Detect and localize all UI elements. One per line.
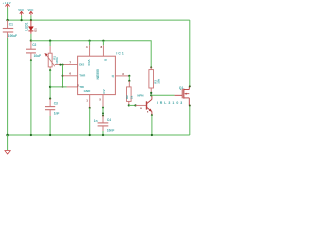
wire right rail lower <box>189 106 191 136</box>
wire LED to node A <box>30 34 32 41</box>
ground <box>5 151 10 154</box>
svg-text:GND: GND <box>84 89 92 93</box>
node dot R2 bottom <box>128 104 130 106</box>
node dot pin8 top <box>102 40 104 42</box>
svg-text:C3: C3 <box>54 101 58 105</box>
wire pot bottom <box>49 69 51 71</box>
capacitor C3 <box>45 99 59 116</box>
svg-text:6: 6 <box>69 72 71 76</box>
svg-text:Q: Q <box>112 74 115 78</box>
node dot gnd rail left <box>6 134 9 137</box>
svg-text:100k: 100k <box>55 57 59 64</box>
wire gnd stub <box>7 135 9 150</box>
wire wiper link down <box>62 65 64 87</box>
transistor Q1 MOSFET IRL3103 <box>157 86 190 105</box>
capacitor C2 <box>26 41 41 60</box>
svg-text:1k: 1k <box>130 95 134 99</box>
resistor R2 <box>125 81 133 105</box>
node dot gnd rail emitter <box>151 134 153 136</box>
wire bottom rail <box>8 134 190 136</box>
potentiometer R1 <box>45 46 59 69</box>
node dot source <box>189 105 191 107</box>
node dot wiper a <box>59 64 61 66</box>
node dot emitter <box>151 114 153 116</box>
svg-text:10nF: 10nF <box>107 128 114 132</box>
capacitor C4 <box>94 116 115 133</box>
wire THR pin <box>63 75 78 77</box>
wire emitter to gnd rail <box>151 115 153 135</box>
svg-text:IC1: IC1 <box>116 51 124 55</box>
svg-text:100uF: 100uF <box>8 34 17 38</box>
power flag P3 VCC <box>28 8 34 15</box>
node dot R3 bottom b <box>150 94 152 96</box>
svg-text:VCC: VCC <box>18 8 24 12</box>
wire net A horizontal <box>31 41 151 68</box>
node dot R3 bottom a <box>150 92 152 94</box>
node dot drain <box>189 85 191 87</box>
wire C4 to gnd rail <box>102 131 104 135</box>
wire P2 stem <box>21 15 23 20</box>
svg-text:1n: 1n <box>94 119 98 123</box>
node dot pin4 top <box>89 40 91 42</box>
node dot wiper b <box>62 64 64 66</box>
node dot TRI junction <box>62 86 64 88</box>
node junction TRI-C3 <box>49 86 51 88</box>
svg-text:NE555: NE555 <box>96 69 100 79</box>
node dot R3 top <box>150 66 152 68</box>
svg-text:C2: C2 <box>32 43 36 47</box>
node dot gnd rail C4 <box>102 134 104 136</box>
wire C3 to gnd rail <box>49 116 51 135</box>
pin 5 CV wire <box>102 95 104 108</box>
svg-text:10k: 10k <box>157 78 161 83</box>
power flag P1 +12V <box>3 2 12 8</box>
svg-text:R2: R2 <box>125 95 129 99</box>
LED D1 <box>24 20 37 34</box>
wire C1 to gnd rail <box>7 38 9 135</box>
svg-text:4: 4 <box>86 45 88 49</box>
svg-text:C4: C4 <box>107 118 111 122</box>
node dot base <box>134 104 136 106</box>
svg-text:E: E <box>147 111 149 113</box>
pin 1 GND wire <box>89 95 91 108</box>
svg-text:B: B <box>140 108 142 110</box>
node dot gnd rail pin1 <box>89 134 91 136</box>
wire base link <box>129 104 136 106</box>
svg-text:VCC: VCC <box>28 8 34 12</box>
op-amp/IC box: timer IC1 NE555 <box>78 51 125 94</box>
node junction rail-P2 <box>21 19 23 21</box>
svg-text:1: 1 <box>86 98 88 102</box>
wire top rail <box>8 19 190 21</box>
node junction A (LED/C2) <box>30 40 32 42</box>
svg-text:IRL3103: IRL3103 <box>157 101 184 105</box>
transistor Q2 NPN <box>137 93 152 114</box>
resistor R3 <box>149 67 161 92</box>
svg-text:8: 8 <box>101 45 103 49</box>
wire C2 to gnd rail <box>30 60 32 135</box>
svg-text:3: 3 <box>122 72 124 76</box>
wire gate <box>151 94 174 96</box>
svg-text:10uF: 10uF <box>34 54 41 58</box>
svg-text:C1: C1 <box>9 23 13 27</box>
node dot THR junction <box>62 75 64 77</box>
wire right rail upper <box>189 20 191 86</box>
node dot C2 bottom <box>30 59 32 61</box>
svg-text:LED1: LED1 <box>24 22 28 30</box>
svg-text:1nF: 1nF <box>54 112 60 116</box>
node dot C3 top <box>49 98 51 100</box>
wire P3 stem <box>30 15 32 20</box>
node dot gnd rail C3 <box>49 134 51 136</box>
capacitor C1 <box>3 20 17 38</box>
svg-text:7: 7 <box>69 60 71 64</box>
wire pin 8 <box>102 41 104 46</box>
svg-text:+12V: +12V <box>3 2 12 5</box>
power flag P2 VCC <box>18 8 24 15</box>
svg-text:DIS: DIS <box>79 62 84 66</box>
svg-text:VCC: VCC <box>87 60 91 67</box>
svg-text:R: R <box>105 58 108 62</box>
node junction rail-LED <box>30 19 32 21</box>
wire TRI horizontal <box>50 86 66 88</box>
svg-text:NPN: NPN <box>137 93 143 97</box>
svg-text:Q1: Q1 <box>179 86 184 90</box>
svg-text:CV: CV <box>102 89 106 93</box>
node dot gnd rail C2 <box>30 134 32 136</box>
svg-text:D1: D1 <box>34 28 38 32</box>
wire pot wiper to DIS pin <box>55 64 78 66</box>
svg-text:THR: THR <box>79 74 86 78</box>
svg-text:5: 5 <box>99 98 101 102</box>
wire P1 stem <box>7 8 9 21</box>
pin 3 Q output wire <box>115 75 129 77</box>
node junction rail-left <box>6 19 8 21</box>
wire pin 4 <box>89 41 91 46</box>
wire node A to pot top <box>49 40 51 42</box>
